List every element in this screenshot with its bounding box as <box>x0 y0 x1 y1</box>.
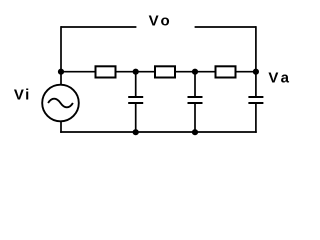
capacitor C2 bottom lead <box>194 104 196 133</box>
junction node B bottom <box>192 129 198 135</box>
capacitor C1 bottom lead <box>135 104 137 133</box>
resistor R2 <box>155 66 175 77</box>
capacitor C2 top lead <box>194 72 196 97</box>
capacitor C1 top lead <box>135 72 137 97</box>
wire R1 to R2 (through node A) <box>116 71 156 73</box>
svg-text:Vo: Vo <box>149 13 173 30</box>
wire R2 to R3 (through node B) <box>175 71 216 73</box>
wire bottom rail <box>60 131 257 133</box>
wire top rail right segment <box>195 26 256 28</box>
source V1 sine symbol <box>48 99 73 108</box>
capacitor C3 plates <box>248 97 263 103</box>
svg-text:Va: Va <box>268 69 292 86</box>
capacitor C3 bottom lead <box>255 104 257 133</box>
source V1 top lead <box>60 72 62 85</box>
source V1 (AC voltage source) <box>42 85 79 122</box>
capacitor C3 top lead <box>255 72 257 97</box>
resistor R3 <box>216 66 236 77</box>
junction node A bottom <box>133 129 139 135</box>
wire top rail left segment <box>61 26 136 28</box>
junction node B top <box>192 69 198 75</box>
resistor R1 <box>96 66 116 77</box>
junction node A top <box>133 69 139 75</box>
wire right vertical (top rail to Va node) <box>255 26 257 72</box>
source V1 bottom lead <box>60 121 62 133</box>
junction node Va <box>253 69 259 75</box>
svg-text:Vi: Vi <box>14 86 31 103</box>
capacitor C2 plates <box>188 97 203 103</box>
capacitor C1 plates <box>128 97 143 103</box>
wire left vertical (top rail to input node) <box>60 26 62 72</box>
wire input node to R1 <box>61 71 96 73</box>
wire R3 to Va node <box>236 71 256 73</box>
junction input node <box>58 69 64 75</box>
